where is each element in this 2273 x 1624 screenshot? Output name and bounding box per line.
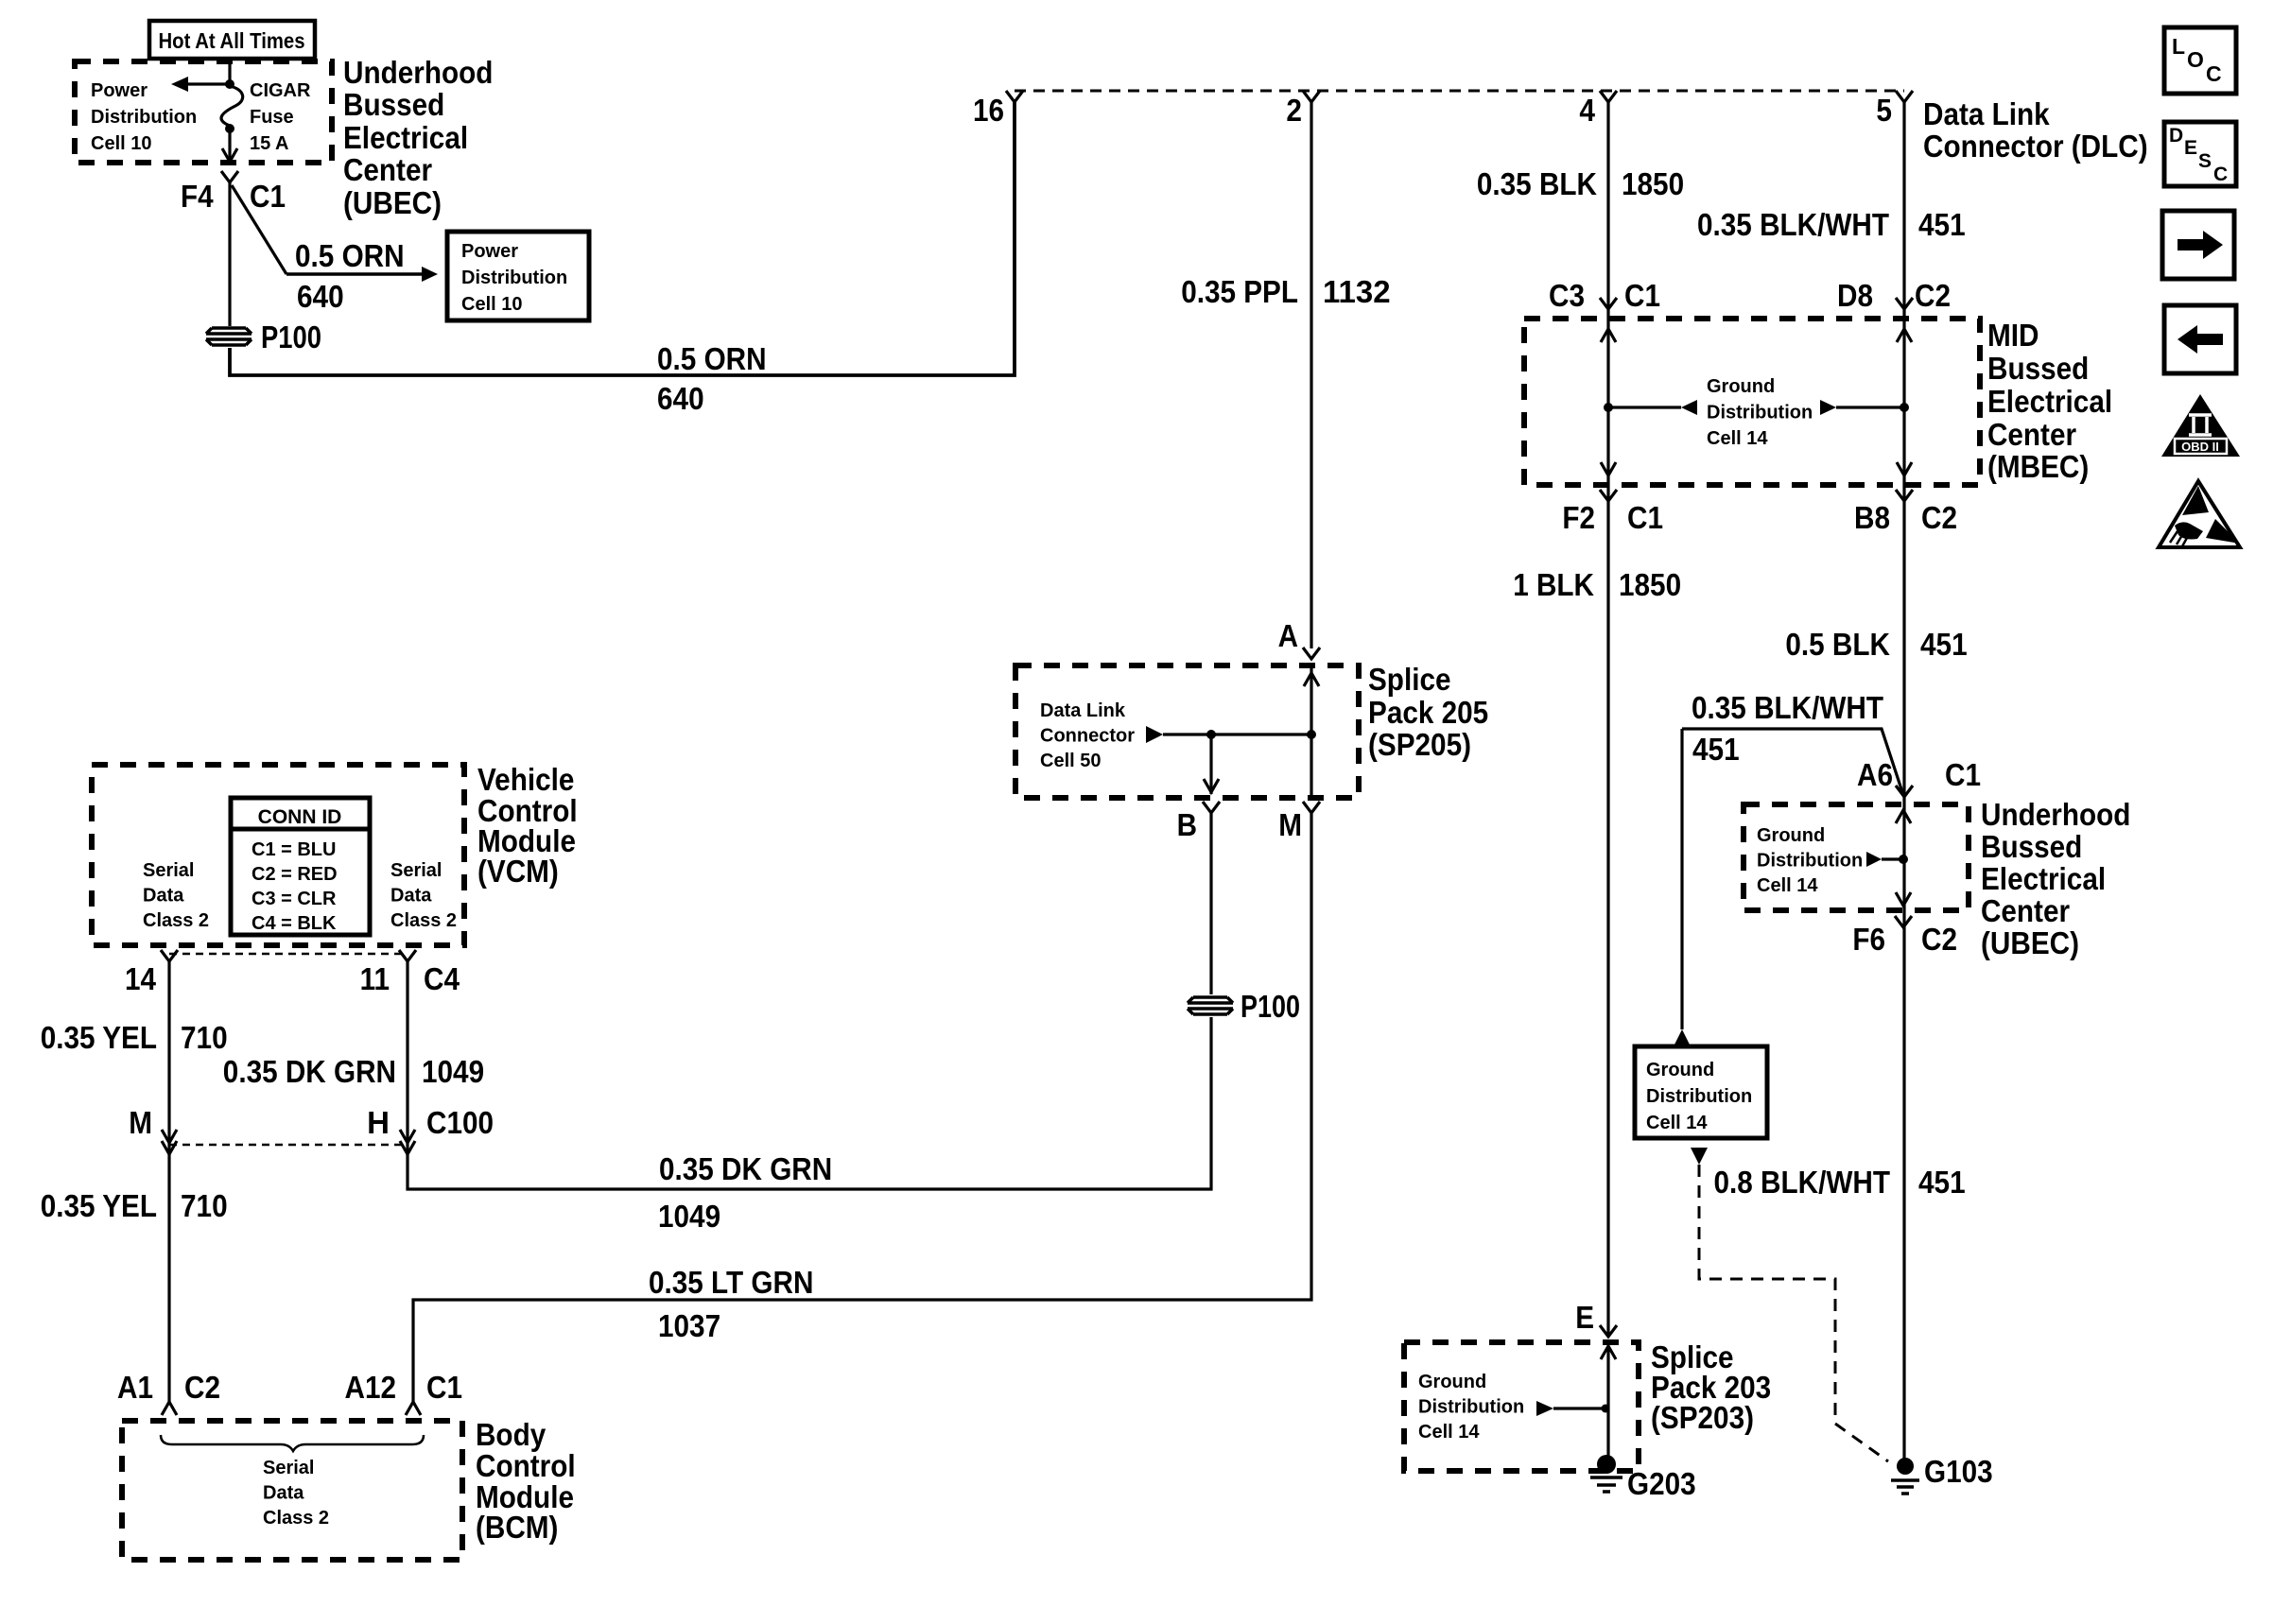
svg-text:0.35 BLK/WHT: 0.35 BLK/WHT [1697, 207, 1889, 242]
svg-text:0.5 ORN: 0.5 ORN [295, 238, 405, 273]
connector fork D8/C2 at MBEC [1896, 298, 1913, 309]
wire 0.5 ORN 640 horizontal [286, 272, 422, 276]
svg-text:Distribution: Distribution [1418, 1397, 1524, 1418]
arrow down at UBEC box edge [222, 148, 237, 162]
arrow up inside MBEC (left) [1601, 329, 1616, 342]
svg-text:Cell 14: Cell 14 [1757, 875, 1818, 896]
svg-text:C1: C1 [250, 179, 286, 214]
svg-text:C: C [2213, 164, 2228, 185]
svg-text:Fuse: Fuse [250, 107, 294, 128]
arrowhead up into wire from Ground Distribution box [1674, 1029, 1691, 1046]
connector fork VCM pin 11 C4 [399, 950, 416, 961]
svg-text:Data: Data [263, 1483, 304, 1504]
wire ground distribution bus MBEC (left) [1608, 406, 1681, 408]
svg-text:D: D [2169, 125, 2183, 147]
grommet P100 (center) [1188, 997, 1233, 1014]
svg-text:1049: 1049 [422, 1054, 484, 1089]
fuse CIGAR 15A (S-curve element) [221, 86, 243, 126]
junction dot UBEC [1899, 855, 1908, 864]
svg-text:Ground: Ground [1757, 825, 1825, 846]
wire splice bus SP205 [1163, 733, 1311, 735]
connector fork A at SP205 [1303, 648, 1320, 659]
arrowhead to Ground Distribution (right) [1820, 400, 1836, 415]
svg-text:5: 5 [1876, 93, 1892, 128]
svg-text:B: B [1177, 807, 1197, 842]
svg-text:Distribution: Distribution [1757, 851, 1863, 872]
svg-text:Cell 14: Cell 14 [1418, 1422, 1480, 1443]
svg-text:0.35 YEL: 0.35 YEL [41, 1188, 157, 1223]
svg-text:A1: A1 [117, 1370, 153, 1405]
svg-text:H: H [367, 1105, 390, 1140]
svg-text:Power: Power [91, 80, 147, 101]
svg-text:CONN ID: CONN ID [258, 806, 342, 828]
svg-text:C2: C2 [184, 1370, 220, 1405]
arrowhead to Ground Distribution (UBEC) [1866, 852, 1882, 867]
svg-text:Bussed: Bussed [343, 87, 444, 122]
svg-text:Cell 14: Cell 14 [1646, 1113, 1708, 1133]
svg-text:Electrical: Electrical [343, 120, 468, 155]
connector fork BCM A12 [406, 1402, 421, 1415]
svg-text:O: O [2187, 47, 2204, 72]
brace Serial Data Class 2 span [161, 1435, 424, 1451]
connector fork DLC pin 4 [1600, 91, 1617, 102]
connector face DLC (dashed) [1015, 90, 1904, 93]
svg-text:0.8 BLK/WHT: 0.8 BLK/WHT [1714, 1165, 1891, 1200]
label box Ground Distribution Cell 14 (solid) [1635, 1046, 1767, 1138]
junction dot SP205 at B drop [1206, 730, 1216, 739]
svg-text:14: 14 [125, 961, 157, 996]
svg-text:Electrical: Electrical [1981, 861, 2106, 896]
icon DESC box [2164, 122, 2236, 186]
svg-text:Serial: Serial [263, 1458, 314, 1478]
svg-text:0.35 BLK/WHT: 0.35 BLK/WHT [1692, 690, 1883, 725]
svg-text:710: 710 [181, 1020, 228, 1055]
svg-text:Class 2: Class 2 [143, 910, 209, 931]
svg-text:(VCM): (VCM) [477, 854, 559, 889]
connector fork F4/C1 [221, 171, 238, 182]
svg-text:Hot At All Times: Hot At All Times [159, 28, 305, 53]
arrow down inside MBEC (left) [1601, 462, 1616, 475]
svg-text:0.35 YEL: 0.35 YEL [41, 1020, 157, 1055]
svg-text:Distribution: Distribution [461, 268, 567, 288]
wire 0.8 BLK/WHT 451 (dashed) to G103 [1699, 1165, 1888, 1461]
connector fork E at SP203 [1600, 1325, 1617, 1337]
svg-text:1850: 1850 [1622, 166, 1684, 201]
svg-text:Body: Body [476, 1417, 547, 1452]
icon left-arrow box [2164, 305, 2236, 373]
svg-text:Center: Center [1987, 417, 2076, 452]
wire to Power Distribution Cell 10 (left) [188, 82, 227, 85]
wire SP203 to G203 [1606, 1346, 1609, 1460]
svg-text:Ground: Ground [1646, 1060, 1714, 1080]
svg-text:CIGAR: CIGAR [250, 80, 311, 101]
svg-text:0.35 DK GRN: 0.35 DK GRN [659, 1151, 832, 1186]
wire F4 down to P100 [228, 182, 231, 326]
arrow down inside MBEC (right) [1897, 462, 1912, 475]
arrow down inside SP205 at B [1204, 779, 1219, 792]
svg-text:MID: MID [1987, 318, 2039, 353]
svg-text:C4: C4 [424, 961, 460, 996]
svg-text:M: M [1278, 807, 1302, 842]
svg-text:Connector: Connector [1040, 726, 1135, 747]
svg-text:C3 = CLR: C3 = CLR [252, 889, 337, 909]
wire ground distribution stub (SP203) [1553, 1407, 1606, 1409]
arrow down inside UBEC [1896, 892, 1911, 906]
wire 0.35 DK GRN 1049 from P100 to VCM pin 11 [408, 961, 1211, 1189]
svg-text:1850: 1850 [1619, 567, 1681, 602]
junction dot SP203 [1602, 1405, 1610, 1413]
component box UBEC (fuse block, dashed) [75, 61, 332, 163]
svg-text:16: 16 [973, 93, 1004, 128]
connector face C100 (dashed) [169, 1144, 408, 1147]
wire from Hot At All Times into UBEC [228, 57, 231, 80]
svg-text:451: 451 [1920, 627, 1968, 662]
connector fork at C100 (H) lower [400, 1141, 415, 1154]
svg-text:11: 11 [360, 961, 390, 996]
svg-text:451: 451 [1918, 1165, 1966, 1200]
wire through SP205 (pin A to M) [1310, 667, 1312, 796]
svg-text:Cell 14: Cell 14 [1707, 428, 1768, 449]
svg-text:C2: C2 [1915, 278, 1951, 313]
svg-text:Cell 10: Cell 10 [91, 133, 151, 154]
svg-text:C2: C2 [1921, 922, 1957, 957]
svg-text:Underhood: Underhood [1981, 797, 2130, 832]
svg-text:A12: A12 [345, 1370, 397, 1405]
connector fork VCM pin 14 [161, 950, 178, 961]
svg-text:Class 2: Class 2 [390, 910, 457, 931]
wire 0.35 BLK / 1 BLK 1850 from DLC pin 4 down to SP203 [1606, 102, 1609, 1337]
icon LOC box [2164, 27, 2236, 94]
arrow up inside MBEC (right) [1897, 329, 1912, 342]
icon right-arrow box [2162, 211, 2234, 279]
svg-text:0.35 DK GRN: 0.35 DK GRN [223, 1054, 396, 1089]
svg-text:Class 2: Class 2 [263, 1508, 329, 1529]
svg-text:Data Link: Data Link [1923, 96, 2050, 131]
icon OBD II triangle [2161, 394, 2240, 457]
svg-text:P100: P100 [1241, 989, 1300, 1024]
svg-text:C1: C1 [1624, 278, 1660, 313]
svg-text:0.35 PPL: 0.35 PPL [1181, 274, 1298, 309]
svg-text:C100: C100 [426, 1105, 494, 1140]
arrowhead down from Ground Distribution box [1691, 1148, 1708, 1165]
connector fork B [1203, 802, 1220, 813]
svg-text:Serial: Serial [143, 860, 194, 881]
svg-text:0.35 BLK: 0.35 BLK [1477, 166, 1597, 201]
connector fork F6/C2 below UBEC [1895, 916, 1912, 927]
svg-text:Pack 205: Pack 205 [1368, 695, 1488, 730]
svg-text:F4: F4 [181, 179, 214, 214]
svg-text:D8: D8 [1837, 278, 1873, 313]
arrowhead to Ground Distribution (left) [1681, 400, 1697, 415]
svg-text:A: A [1278, 618, 1298, 653]
svg-text:C2 = RED: C2 = RED [252, 864, 338, 885]
svg-text:C1 = BLU: C1 = BLU [252, 839, 336, 860]
svg-text:Center: Center [343, 152, 432, 187]
label box Power Distribution Cell 10 [447, 232, 589, 320]
connector fork C3/C1 at MBEC [1600, 298, 1617, 309]
svg-text:2: 2 [1286, 93, 1302, 128]
connector fork DLC pin 2 [1303, 91, 1320, 102]
wire fuse to UBEC edge [228, 129, 231, 162]
svg-text:Distribution: Distribution [1707, 403, 1813, 423]
arrowhead from Data Link Connector Cell 50 [1146, 726, 1163, 743]
svg-text:Serial: Serial [390, 860, 442, 881]
svg-text:1049: 1049 [658, 1199, 720, 1234]
arrow up inside SP205 [1304, 673, 1319, 686]
svg-text:C2: C2 [1921, 500, 1957, 535]
wire SP205 to B [1209, 734, 1212, 794]
wire 0.35 BLK/WHT / 0.5 BLK 451 from DLC pin 5 to G103 [1902, 102, 1905, 1464]
svg-text:Connector (DLC): Connector (DLC) [1923, 129, 2148, 164]
svg-text:640: 640 [297, 279, 344, 314]
connector fork M [1303, 802, 1320, 813]
svg-text:C1: C1 [426, 1370, 462, 1405]
wire branch diagonal 0.5 ORN to Power Distribution [232, 185, 286, 274]
component box Underhood Bussed Electrical Center (dashed) [1744, 804, 1969, 910]
ground G203 [1590, 1455, 1622, 1492]
arrow down at C100 (M) upper [162, 1130, 177, 1143]
svg-text:0.5 BLK: 0.5 BLK [1785, 627, 1890, 662]
svg-text:C4 = BLK: C4 = BLK [252, 913, 337, 934]
svg-text:(UBEC): (UBEC) [343, 185, 442, 220]
icon ESD triangle [2159, 481, 2240, 547]
wire ground distribution bus MBEC (right) [1836, 406, 1904, 408]
svg-text:Underhood: Underhood [343, 55, 493, 90]
wire 0.5 ORN 640 from P100 to DLC pin 16 [230, 102, 1015, 375]
svg-text:451: 451 [1692, 732, 1740, 767]
svg-text:0.5 ORN: 0.5 ORN [657, 341, 767, 376]
svg-text:Power: Power [461, 241, 518, 262]
connector fork DLC pin 16 [1006, 91, 1023, 102]
svg-text:15 A: 15 A [250, 133, 289, 154]
junction dot at fuse top [225, 79, 234, 89]
svg-text:Cell 50: Cell 50 [1040, 751, 1101, 771]
svg-text:Data: Data [143, 886, 184, 907]
svg-text:G103: G103 [1924, 1454, 1993, 1489]
svg-text:0.35 LT GRN: 0.35 LT GRN [649, 1265, 813, 1300]
wire 0.35 PPL 1132 from DLC pin 2 [1310, 102, 1312, 648]
svg-text:S: S [2198, 150, 2212, 172]
svg-text:B8: B8 [1854, 500, 1890, 535]
svg-text:F2: F2 [1562, 500, 1595, 535]
component box Splice Pack 203 (dashed) [1404, 1342, 1639, 1471]
svg-text:Electrical: Electrical [1987, 384, 2112, 419]
svg-text:1037: 1037 [658, 1308, 720, 1343]
svg-text:E: E [1575, 1300, 1594, 1335]
svg-text:(BCM): (BCM) [476, 1510, 558, 1545]
svg-text:1 BLK: 1 BLK [1513, 567, 1594, 602]
arrowhead into Power Distribution Cell 10 box [422, 267, 438, 282]
connector fork F2/C1 below MBEC [1600, 490, 1617, 501]
arrowhead to Ground Distribution (SP203) [1536, 1401, 1553, 1416]
svg-text:Data Link: Data Link [1040, 700, 1126, 721]
svg-text:Distribution: Distribution [1646, 1086, 1752, 1107]
component box Vehicle Control Module (dashed) [92, 765, 464, 945]
svg-text:F6: F6 [1852, 922, 1885, 957]
svg-text:710: 710 [181, 1188, 228, 1223]
wire 0.35 LT GRN 1037 from M to BCM A12 [413, 813, 1311, 1403]
label box "Hot At All Times" [149, 21, 315, 59]
svg-text:Ground: Ground [1418, 1372, 1486, 1392]
svg-text:OBD II: OBD II [2181, 440, 2219, 454]
svg-text:Vehicle: Vehicle [477, 762, 574, 797]
svg-text:Cell 10: Cell 10 [461, 294, 522, 315]
ground G103 [1891, 1458, 1919, 1494]
junction dot at fuse bottom [225, 124, 234, 133]
connector face VCM C4 (dashed) [169, 953, 408, 956]
svg-text:640: 640 [657, 381, 704, 416]
junction dot SP205 on A-M line [1307, 730, 1316, 739]
svg-text:Bussed: Bussed [1981, 829, 2082, 864]
svg-text:C1: C1 [1627, 500, 1663, 535]
svg-text:C3: C3 [1549, 278, 1585, 313]
svg-text:(MBEC): (MBEC) [1987, 449, 2089, 484]
svg-text:L: L [2172, 34, 2185, 59]
arrow up inside UBEC [1896, 810, 1911, 823]
connector fork B8/C2 below MBEC [1896, 490, 1913, 501]
svg-text:G203: G203 [1627, 1466, 1696, 1501]
wire 0.35 BLK/WHT 451 vertical to Ground Distribution [1680, 729, 1683, 1029]
svg-text:C1: C1 [1945, 757, 1981, 792]
svg-text:Splice: Splice [1368, 662, 1451, 697]
svg-text:M: M [129, 1105, 152, 1140]
table CONN ID [231, 798, 370, 935]
connector fork DLC pin 5 [1896, 91, 1913, 102]
wire ground distribution stub (UBEC) [1882, 857, 1903, 860]
svg-text:E: E [2184, 137, 2197, 159]
svg-text:Center: Center [1981, 893, 2070, 928]
arrow up inside SP203 [1601, 1346, 1616, 1359]
connector fork BCM A1 [162, 1402, 177, 1415]
svg-text:451: 451 [1918, 207, 1966, 242]
grommet P100 (left) [206, 328, 252, 345]
connector fork at C100 (M) lower [162, 1141, 177, 1154]
arrow down at C100 (H) upper [400, 1130, 415, 1143]
junction dot MBEC right [1900, 403, 1909, 412]
svg-text:Distribution: Distribution [91, 107, 197, 128]
svg-text:C: C [2206, 61, 2222, 86]
svg-text:(UBEC): (UBEC) [1981, 925, 2079, 960]
svg-text:Ground: Ground [1707, 376, 1775, 397]
svg-text:(SP203): (SP203) [1651, 1400, 1754, 1435]
component box Body Control Module (dashed) [122, 1421, 462, 1560]
wire 0.35 YEL 710 from VCM pin 14 to BCM A1 [167, 961, 170, 1405]
svg-text:P100: P100 [261, 320, 321, 354]
junction dot MBEC left [1604, 403, 1613, 412]
svg-text:Data: Data [390, 886, 432, 907]
component box Splice Pack 205 (dashed) [1015, 665, 1359, 798]
svg-text:A6: A6 [1857, 757, 1893, 792]
component box MID Bussed Electrical Center (dashed) [1524, 319, 1980, 485]
wire 0.35 BLK/WHT 451 branch to UBEC A6 [1682, 729, 1902, 792]
connector fork A6/C1 at UBEC [1896, 786, 1913, 797]
wire B down to P100 [1209, 813, 1212, 994]
arrowhead left to Power Distribution [171, 77, 188, 92]
svg-text:1132: 1132 [1323, 274, 1391, 309]
svg-text:Bussed: Bussed [1987, 351, 2089, 386]
svg-text:4: 4 [1579, 93, 1595, 128]
svg-text:Control: Control [476, 1448, 576, 1483]
svg-text:(SP205): (SP205) [1368, 727, 1471, 762]
